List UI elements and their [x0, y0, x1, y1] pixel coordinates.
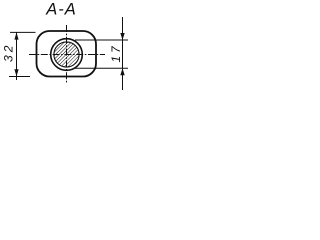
arrow up	[14, 32, 18, 39]
svg-text:A-A: A-A	[45, 0, 77, 18]
right extension line bottom	[75, 67, 128, 69]
body outline (rounded rectangle section)	[37, 31, 97, 77]
left extension line bottom	[9, 76, 30, 78]
right dimension line 17	[122, 17, 124, 90]
arrow down	[14, 69, 18, 76]
svg-text:17: 17	[109, 44, 123, 63]
left extension line top	[10, 31, 36, 33]
left dimension line 32	[16, 32, 18, 80]
inner hatched circle (shaft section)	[54, 42, 79, 67]
arrow down onto top ext line	[120, 33, 124, 40]
right extension line top	[75, 39, 128, 41]
svg-text:32: 32	[1, 43, 15, 62]
vertical centerline	[66, 25, 68, 83]
outer circle (bore)	[51, 39, 83, 71]
arrow up onto bottom ext line	[120, 68, 124, 75]
horizontal centerline	[29, 54, 105, 56]
